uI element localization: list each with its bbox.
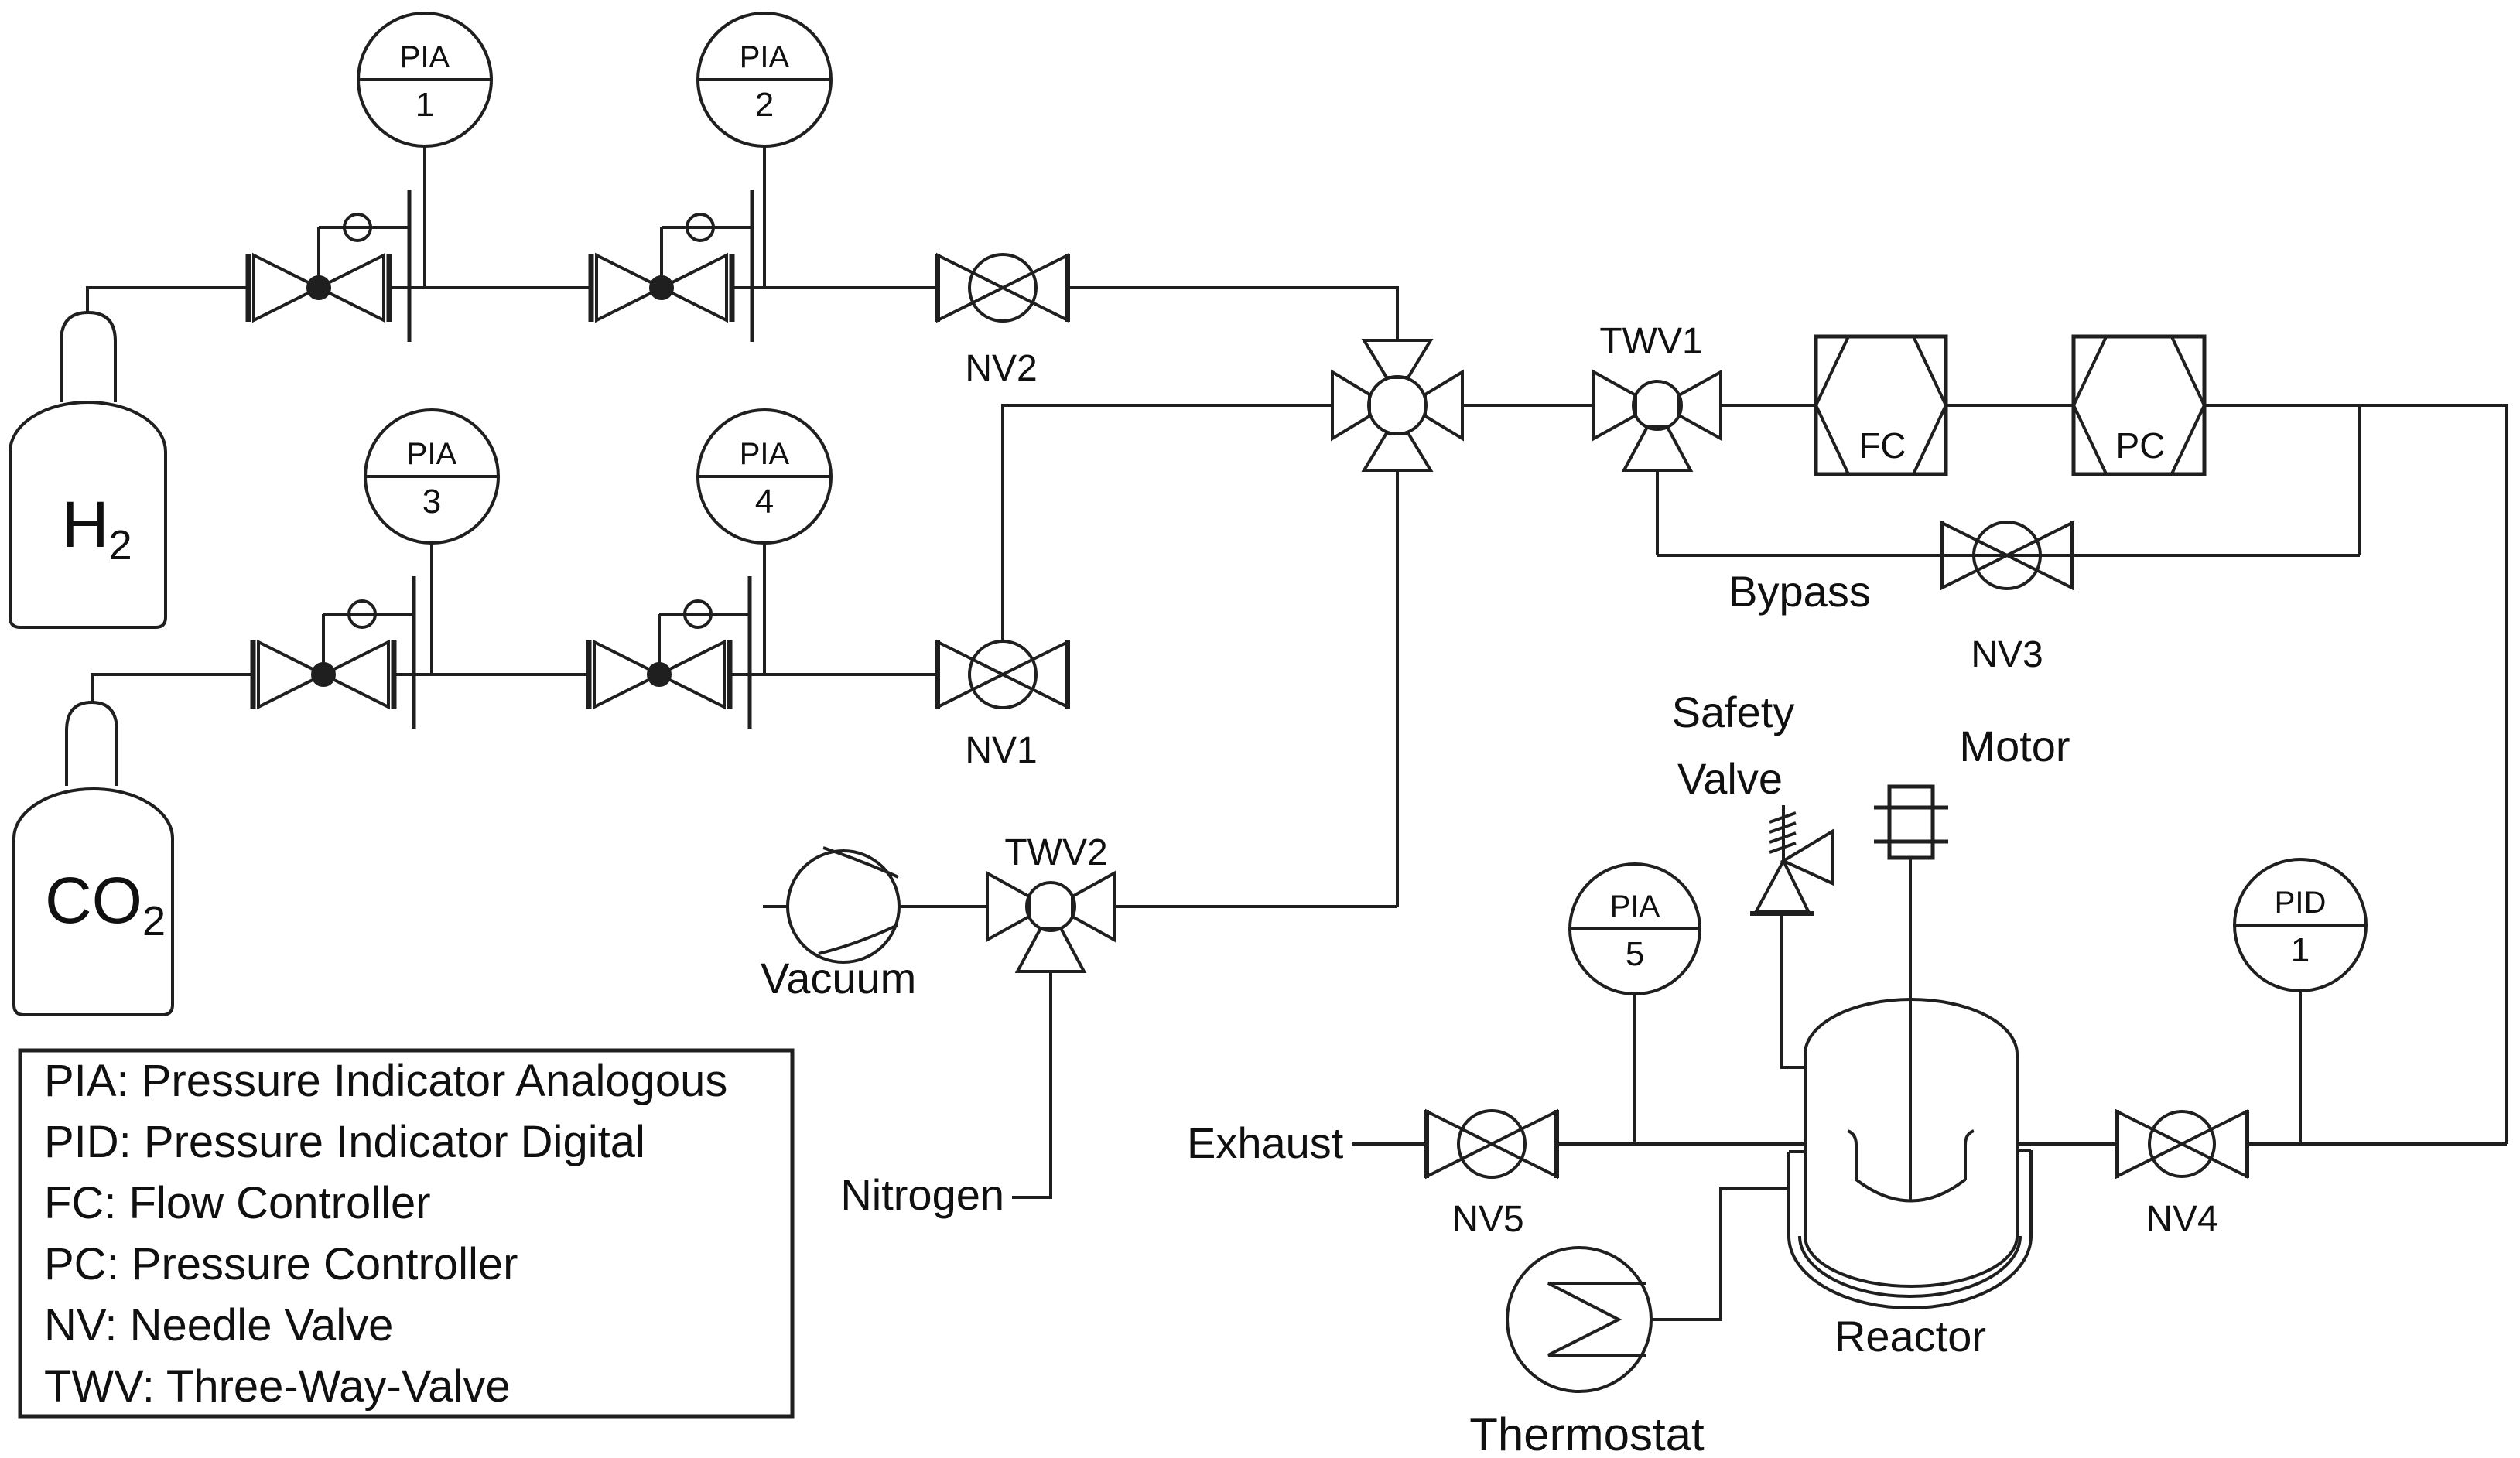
- svg-text:TWV2: TWV2: [1004, 832, 1107, 873]
- wire four-way bottom riser: [1396, 470, 1399, 907]
- legend box: [20, 1050, 792, 1416]
- stirrer impeller: [1848, 1131, 1856, 1180]
- needle valve NV2: [935, 254, 940, 322]
- wire TWV2 to four-way riser: [1114, 905, 1397, 908]
- svg-text:4: 4: [755, 483, 774, 521]
- svg-text:Exhaust: Exhaust: [1187, 1118, 1344, 1167]
- svg-text:Reactor: Reactor: [1834, 1312, 1986, 1361]
- svg-text:PC: PC: [2116, 425, 2166, 466]
- H2 gas cylinder: [10, 402, 166, 627]
- svg-text:PIA: Pressure Indicator Analog: PIA: Pressure Indicator Analogous: [44, 1056, 727, 1106]
- svg-text:Thermostat: Thermostat: [1469, 1408, 1705, 1458]
- wire bypass riser to main: [2358, 405, 2361, 555]
- gauge PID 1: [2234, 859, 2366, 991]
- wire H2 cylinder to regulator: [87, 288, 248, 312]
- svg-text:PID: Pressure Indicator Digita: PID: Pressure Indicator Digital: [44, 1117, 645, 1167]
- gauge PIA 2: [763, 146, 766, 288]
- flow controller FC: [1816, 336, 1946, 474]
- svg-text:Vacuum: Vacuum: [761, 954, 916, 1002]
- pressure regulator PR2 (H2 line): [589, 254, 594, 322]
- CO2 gas cylinder: [14, 789, 173, 1015]
- safety valve: [1756, 861, 1808, 911]
- thermostat: [1507, 1248, 1651, 1391]
- vacuum pump: [763, 905, 788, 908]
- svg-text:3: 3: [422, 483, 441, 521]
- wire PR1 to PR2: [389, 286, 591, 289]
- stirrer shaft: [1909, 858, 1912, 1200]
- wire four-way to TWV1: [1462, 404, 1594, 407]
- svg-text:PIA: PIA: [407, 437, 457, 471]
- svg-text:FC: FC: [1858, 425, 1906, 466]
- svg-text:TWV: Three-Way-Valve: TWV: Three-Way-Valve: [44, 1361, 511, 1412]
- svg-text:PIA: PIA: [1610, 889, 1660, 924]
- needle valve NV1: [935, 640, 940, 709]
- svg-text:1: 1: [2291, 931, 2310, 969]
- svg-text:PIA: PIA: [740, 437, 790, 471]
- wire nitrogen feed: [1012, 971, 1051, 1197]
- svg-text:FC: Flow Controller: FC: Flow Controller: [44, 1178, 431, 1228]
- exhaust stub wire: [1352, 1142, 1427, 1146]
- svg-text:Valve: Valve: [1677, 754, 1783, 803]
- wire TWV1 bypass drop: [1656, 470, 1659, 555]
- needle valve NV4: [2115, 1110, 2119, 1178]
- wire FC to PC: [1946, 404, 2074, 407]
- svg-text:2: 2: [755, 86, 774, 124]
- gauge PIA 3: [430, 543, 433, 674]
- wire PR4 to NV1: [730, 673, 938, 676]
- wire PR2 to NV2: [732, 286, 938, 289]
- svg-text:NV2: NV2: [965, 348, 1037, 389]
- pressure regulator PR4 (CO2 line): [586, 640, 592, 709]
- svg-text:PC: Pressure Controller: PC: Pressure Controller: [44, 1239, 518, 1289]
- gauge PIA 5 connector: [1633, 994, 1636, 1144]
- wire bypass line: [1657, 554, 2360, 557]
- svg-text:PID: PID: [2275, 886, 2327, 920]
- wire thermostat to jacket: [1651, 1189, 1789, 1320]
- svg-text:Nitrogen: Nitrogen: [840, 1170, 1004, 1219]
- wire NV5 to reactor: [1557, 1142, 1805, 1146]
- wire NV4 to right header: [2247, 1142, 2507, 1146]
- svg-text:TWV1: TWV1: [1599, 321, 1702, 362]
- svg-text:NV5: NV5: [1451, 1199, 1523, 1240]
- reactor jacket: [1789, 1150, 2031, 1308]
- pressure regulator PR3 (CO2 line): [251, 640, 256, 709]
- svg-text:Safety: Safety: [1672, 688, 1795, 736]
- svg-text:NV: Needle Valve: NV: Needle Valve: [44, 1300, 393, 1350]
- wire vacuum to TWV2: [899, 905, 987, 908]
- reactor vessel: [1805, 999, 2017, 1236]
- svg-text:Motor: Motor: [1959, 722, 2070, 770]
- wire TWV1 to FC: [1721, 404, 1816, 407]
- four-way valve: [1332, 372, 1369, 439]
- gauge PID 1 connector: [2299, 991, 2302, 1144]
- gauge PIA 1: [423, 146, 426, 288]
- svg-text:PIA: PIA: [400, 40, 450, 74]
- svg-text:PIA: PIA: [740, 40, 790, 74]
- wire PC to right header: [2204, 405, 2507, 1144]
- needle valve NV3: [1940, 521, 1944, 589]
- pressure regulator PR1 (H2 line): [246, 254, 251, 322]
- wire NV2 to four-way valve: [1068, 288, 1397, 340]
- gauge PIA 4: [763, 543, 766, 674]
- svg-text:Bypass: Bypass: [1728, 567, 1871, 616]
- wire CO2 cylinder to regulator: [92, 674, 253, 702]
- motor: [1889, 787, 1933, 858]
- gauge PIA 5: [1570, 864, 1700, 994]
- wire PR3 to PR4: [394, 673, 589, 676]
- three-way valve TWV1: [1594, 372, 1636, 439]
- svg-text:NV4: NV4: [2146, 1199, 2217, 1240]
- svg-text:5: 5: [1626, 935, 1644, 973]
- svg-text:NV1: NV1: [965, 730, 1037, 771]
- three-way valve TWV2: [987, 873, 1029, 940]
- svg-text:NV3: NV3: [1971, 634, 2043, 675]
- needle valve NV5: [1424, 1110, 1429, 1178]
- pressure controller PC: [2074, 336, 2204, 474]
- svg-text:1: 1: [415, 86, 434, 124]
- wire NV1 riser to four-way valve: [1003, 405, 1332, 641]
- wire reactor to NV4: [2017, 1142, 2118, 1146]
